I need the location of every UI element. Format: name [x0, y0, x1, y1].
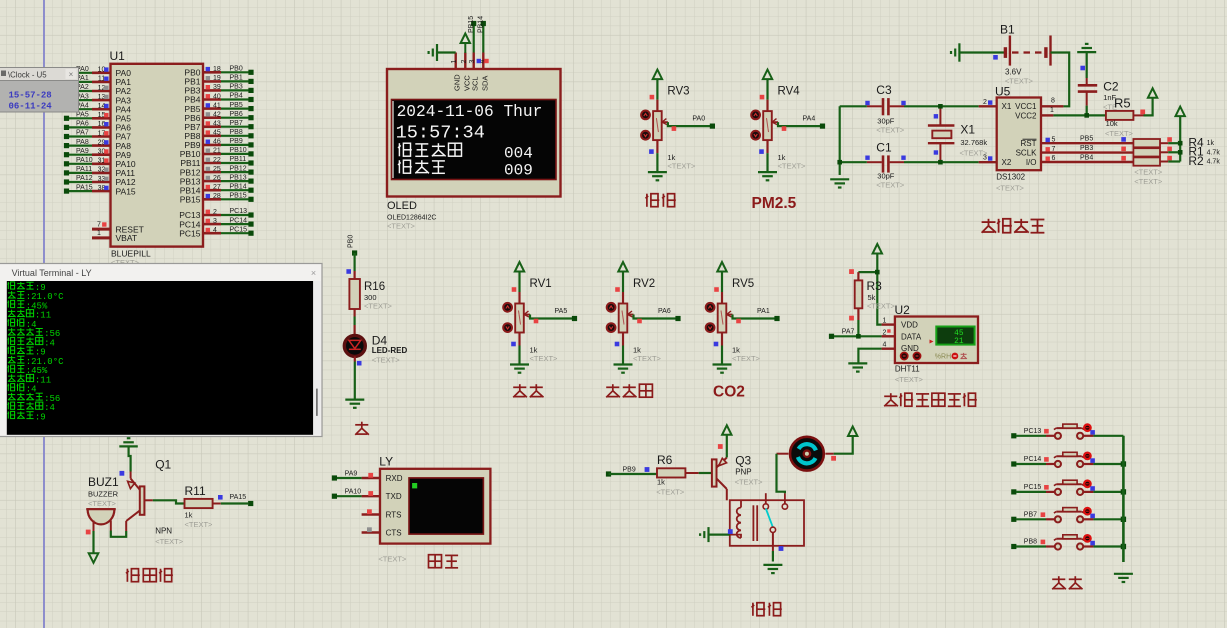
svg-text:<TEXT>: <TEXT>: [778, 162, 807, 171]
wire motor right to power arrow: [825, 427, 857, 461]
label lamp: [355, 422, 369, 435]
svg-text:<TEXT>: <TEXT>: [185, 520, 214, 529]
svg-text:PB4: PB4: [1080, 155, 1093, 162]
relay common to ground: [763, 532, 783, 573]
svg-text:PC15: PC15: [230, 226, 248, 233]
OLED GND wire + ground: [437, 51, 456, 53]
label light: [513, 384, 543, 397]
svg-text:RV3: RV3: [667, 86, 689, 98]
svg-text::9: :9: [35, 412, 46, 422]
svg-text:PA12: PA12: [76, 175, 93, 182]
svg-text:22: 22: [213, 157, 221, 164]
svg-text:R6: R6: [657, 453, 673, 467]
svg-text::4: :4: [26, 320, 37, 330]
svg-text:<TEXT>: <TEXT>: [876, 126, 905, 135]
wire PB9 to R6: [609, 467, 658, 474]
svg-text::4: :4: [26, 385, 37, 395]
svg-text:43: 43: [213, 121, 221, 128]
svg-text:PB6: PB6: [230, 111, 243, 118]
svg-text:BUZ1: BUZ1: [88, 475, 119, 489]
svg-text:PB15: PB15: [468, 16, 475, 33]
battery B1: [951, 23, 1051, 86]
svg-text:RTS: RTS: [386, 510, 402, 519]
svg-text:PB13: PB13: [230, 174, 247, 181]
svg-text:10k: 10k: [1106, 119, 1118, 128]
potentiometer RV1 (light sensor): [503, 262, 577, 373]
svg-text:7: 7: [1052, 146, 1056, 153]
svg-text:PB9: PB9: [623, 467, 636, 474]
svg-text:45: 45: [954, 330, 964, 338]
OLED pin stubs + rotated names: [451, 53, 489, 92]
transistor Q3 PNP: [699, 454, 763, 501]
resistor R5: [1105, 96, 1145, 139]
potentiometer RV4 (PM2.5 sensor): [751, 70, 825, 181]
svg-text:<TEXT>: <TEXT>: [656, 488, 685, 497]
resistor R3: [849, 269, 895, 320]
OLED SCL wire to PB15: [468, 16, 476, 53]
svg-text:PC15: PC15: [179, 228, 201, 238]
svg-text:<TEXT>: <TEXT>: [364, 302, 393, 311]
svg-text:BLUEPILL: BLUEPILL: [111, 248, 151, 258]
svg-text:<TEXT>: <TEXT>: [155, 537, 184, 546]
svg-text:PA9: PA9: [345, 470, 358, 477]
wire ground to Q1 emitter: [120, 446, 131, 475]
svg-text:I/O: I/O: [1026, 158, 1037, 167]
svg-text:PA5: PA5: [76, 112, 89, 119]
svg-text:PB1: PB1: [230, 75, 243, 82]
label clock module: [982, 219, 1045, 233]
svg-text:R16: R16: [364, 281, 385, 293]
wire PB0 to R16: [354, 253, 356, 271]
svg-text:DATA: DATA: [901, 333, 922, 342]
svg-text:<TEXT>: <TEXT>: [1134, 168, 1163, 177]
svg-text:<TEXT>: <TEXT>: [735, 478, 764, 487]
svg-text:PA9: PA9: [76, 148, 89, 155]
svg-text:×: ×: [69, 70, 74, 79]
power rail right of R4/R1/R2: [1168, 107, 1185, 162]
svg-text:<TEXT>: <TEXT>: [876, 181, 905, 190]
power arrow above R3/U2: [873, 244, 882, 254]
wire X2 row (pin3): [904, 155, 997, 165]
OLED VCC power arrow: [461, 34, 470, 44]
svg-text:2: 2: [983, 99, 987, 106]
svg-text:R5: R5: [1114, 96, 1131, 111]
svg-text:5: 5: [1052, 136, 1056, 143]
svg-text:TXD: TXD: [386, 492, 402, 501]
svg-text:VBAT: VBAT: [116, 233, 138, 243]
svg-text:1: 1: [1050, 107, 1054, 114]
svg-text:<TEXT>: <TEXT>: [895, 375, 924, 384]
svg-text:R11: R11: [185, 484, 206, 498]
push button PB8: [1011, 535, 1126, 550]
svg-text:PA8: PA8: [76, 139, 89, 146]
svg-text:OLED12864I2C: OLED12864I2C: [387, 215, 436, 222]
Virtual Terminal window: [0, 264, 322, 437]
svg-text:<TEXT>: <TEXT>: [633, 354, 662, 363]
svg-text:PC14: PC14: [230, 217, 248, 224]
capacitor C1: [865, 141, 905, 190]
svg-text:4.7k: 4.7k: [1207, 149, 1221, 156]
wire power to R3 and U2 VDD: [858, 254, 881, 325]
svg-text:3: 3: [983, 155, 987, 162]
svg-text:<TEXT>: <TEXT>: [530, 354, 559, 363]
svg-text:<TEXT>: <TEXT>: [88, 499, 117, 508]
svg-text:PB0: PB0: [347, 235, 354, 248]
svg-text:U1: U1: [110, 49, 126, 63]
svg-text:C3: C3: [876, 83, 892, 97]
svg-text:PB9: PB9: [230, 138, 243, 145]
potentiometer RV5 (CO2 sensor): [706, 262, 780, 373]
svg-text:<TEXT>: <TEXT>: [1105, 129, 1134, 138]
svg-text:25: 25: [213, 166, 221, 173]
svg-text:8: 8: [1051, 98, 1055, 105]
svg-text:<TEXT>: <TEXT>: [372, 356, 401, 365]
buzzer right pin to Q1 collector: [111, 521, 126, 537]
DHT11 module U2: [882, 303, 978, 384]
label fan: [752, 603, 782, 616]
svg-text:U5: U5: [995, 85, 1011, 99]
svg-text:Virtual Terminal - LY: Virtual Terminal - LY: [12, 268, 92, 278]
svg-text:PB7: PB7: [1024, 512, 1037, 519]
svg-text:PC15: PC15: [1024, 484, 1042, 491]
svg-text:RXD: RXD: [386, 474, 403, 483]
wire PA10 to TXD: [332, 489, 380, 499]
Q3 emitter power arrow: [718, 425, 732, 457]
label keys: [1052, 576, 1082, 589]
svg-text:PB11: PB11: [230, 156, 247, 163]
svg-text:06-11-24: 06-11-24: [9, 102, 53, 112]
svg-text:VCC2: VCC2: [1015, 111, 1037, 120]
svg-text:<TEXT>: <TEXT>: [378, 555, 407, 564]
power arrow for R5: [1144, 88, 1158, 115]
svg-text:1: 1: [451, 60, 458, 64]
svg-text:2024-11-06 Thur: 2024-11-06 Thur: [397, 103, 543, 121]
svg-text:Q1: Q1: [155, 458, 171, 472]
svg-text:VCC1: VCC1: [1015, 102, 1037, 111]
svg-text:PB5: PB5: [230, 102, 243, 109]
svg-text:<TEXT>: <TEXT>: [732, 354, 761, 363]
svg-text:DHT11: DHT11: [895, 365, 920, 374]
push button PC13: [1011, 424, 1123, 439]
svg-text:1k: 1k: [1207, 140, 1215, 147]
svg-text:%RH: %RH: [935, 354, 951, 361]
svg-text:RV2: RV2: [633, 278, 655, 290]
LED D4: [344, 334, 407, 365]
resistor R11: [153, 484, 221, 529]
svg-text:PA4: PA4: [803, 116, 816, 123]
svg-text:40: 40: [213, 93, 221, 100]
svg-text:1k: 1k: [657, 478, 665, 487]
U1 RESET/VBAT pins: [92, 228, 111, 231]
wire motor left to relay switch: [777, 454, 789, 494]
svg-text:15:57:34: 15:57:34: [396, 123, 485, 144]
svg-text:PB0: PB0: [230, 66, 243, 73]
label buzzer: [126, 569, 173, 582]
svg-text:26: 26: [213, 175, 221, 182]
svg-text:SDA: SDA: [480, 76, 489, 91]
svg-text:32.768k: 32.768k: [960, 138, 987, 147]
svg-text:21: 21: [213, 148, 221, 155]
resistor R4: [1133, 135, 1214, 149]
svg-text:30pF: 30pF: [877, 172, 895, 181]
label temp/humidity sensor: [884, 393, 977, 406]
svg-text:4: 4: [883, 342, 887, 349]
svg-text:PM2.5: PM2.5: [752, 195, 797, 212]
svg-text:VDD: VDD: [901, 321, 918, 330]
svg-text:X1: X1: [960, 123, 975, 137]
svg-text:<TEXT>: <TEXT>: [387, 222, 416, 231]
svg-text:21: 21: [954, 338, 964, 346]
svg-text:3: 3: [469, 60, 476, 64]
label H2S: [606, 384, 652, 397]
OLED SDA wire to PB14: [478, 16, 486, 53]
svg-text:42: 42: [213, 112, 221, 119]
svg-text:×: ×: [311, 268, 316, 278]
svg-text:CTS: CTS: [386, 528, 402, 537]
svg-text:PB15: PB15: [230, 193, 247, 200]
net PB0 terminal: [347, 235, 357, 256]
svg-text::4: :4: [44, 338, 55, 348]
svg-text:X2: X2: [1002, 158, 1012, 167]
U5 SCLK row to R1: [1041, 145, 1133, 153]
svg-text:R2: R2: [1188, 154, 1204, 168]
small gray tab left edge: [0, 310, 5, 323]
svg-text:LED-RED: LED-RED: [372, 346, 408, 355]
svg-text:<TEXT>: <TEXT>: [667, 162, 696, 171]
svg-text:1: 1: [97, 230, 101, 237]
svg-text:PC13: PC13: [1024, 428, 1042, 435]
svg-text:15-57-28: 15-57-28: [9, 91, 52, 101]
buttons common rail to ground: [1114, 436, 1133, 582]
svg-text:PA11: PA11: [76, 166, 92, 173]
svg-text:C2: C2: [1103, 80, 1119, 94]
svg-text:RV4: RV4: [778, 86, 801, 98]
svg-text:004: 004: [504, 145, 533, 163]
Clock-U5 popup window: [0, 68, 79, 113]
svg-text:X1: X1: [1002, 102, 1012, 111]
svg-text:C1: C1: [876, 141, 892, 155]
wire PA9 to RXD: [332, 470, 380, 480]
left rail C3/C1 to ground: [830, 106, 867, 187]
net PB9 terminal: [606, 467, 636, 477]
svg-text:LY: LY: [379, 455, 393, 469]
svg-text:PB14: PB14: [478, 16, 485, 33]
svg-text:PA0: PA0: [692, 116, 705, 123]
wire X1 row (pin2): [904, 99, 997, 109]
svg-text:<TEXT>: <TEXT>: [867, 302, 896, 311]
label bluetooth: [429, 555, 459, 568]
microcontroller U1 BLUEPILL: [64, 49, 254, 267]
svg-text:PA7: PA7: [842, 329, 855, 336]
svg-text:CO2: CO2: [713, 384, 745, 401]
svg-text:PA6: PA6: [76, 121, 89, 128]
svg-text:U2: U2: [895, 303, 911, 317]
capacitor C2: [1078, 78, 1119, 115]
svg-text::4: :4: [44, 403, 55, 413]
svg-text:2: 2: [213, 209, 217, 216]
svg-text:RV1: RV1: [530, 278, 552, 290]
svg-text:PC14: PC14: [1024, 456, 1042, 463]
crystal X1: [928, 106, 988, 162]
svg-text:39: 39: [213, 84, 221, 91]
label ammonia: [646, 194, 676, 207]
svg-text:<TEXT>: <TEXT>: [1134, 177, 1163, 186]
wire battery to U5 VCC1 pin8: [1041, 53, 1069, 107]
capacitor C3: [865, 83, 905, 135]
wire U5 VCC2 row: [1041, 107, 1106, 118]
svg-text:18: 18: [213, 66, 221, 73]
svg-text:27: 27: [213, 184, 221, 191]
svg-text:\Clock - U5: \Clock - U5: [8, 70, 47, 79]
resistor R16: [349, 271, 392, 317]
buzzer BUZ1: [86, 475, 119, 524]
ground under D4: [345, 399, 364, 401]
svg-text:OLED: OLED: [387, 200, 417, 212]
svg-text:4: 4: [213, 227, 217, 234]
svg-text:PB12: PB12: [230, 165, 247, 172]
svg-text:3: 3: [213, 218, 217, 225]
svg-text:PB15: PB15: [180, 195, 201, 205]
svg-text:3.6V: 3.6V: [1005, 68, 1022, 77]
svg-text:PA6: PA6: [658, 308, 671, 315]
potentiometer RV3 (ammonia sensor): [641, 70, 715, 181]
potentiometer RV2 (H2S sensor): [607, 262, 681, 373]
flipped ground above Q1: [119, 445, 138, 447]
svg-text:PA10: PA10: [76, 157, 93, 164]
svg-text:PB5: PB5: [1080, 136, 1093, 143]
svg-text:R3: R3: [867, 279, 883, 293]
svg-text:PA7: PA7: [76, 130, 89, 137]
svg-text:PA1: PA1: [757, 308, 770, 315]
svg-text:46: 46: [213, 139, 221, 146]
relay coil ground (left): [700, 527, 733, 542]
OLED text line CO2: [398, 143, 400, 156]
fan motor: [790, 437, 824, 471]
wire R11 to PA15: [218, 494, 253, 506]
svg-text:28: 28: [213, 193, 221, 200]
CTS stub: [362, 527, 380, 532]
svg-text:NPN: NPN: [155, 527, 172, 536]
svg-text:41: 41: [213, 102, 221, 109]
terminal text lines: [8, 282, 65, 422]
U5 RST row to R4: [1041, 136, 1133, 144]
resistor R6: [656, 453, 698, 497]
svg-text::11: :11: [35, 375, 51, 385]
svg-text:PA10: PA10: [345, 489, 362, 496]
svg-text:PA15: PA15: [116, 186, 136, 196]
relay switch contacts: [763, 493, 788, 532]
resistor R2: [1133, 154, 1220, 186]
svg-text:1: 1: [883, 318, 887, 325]
svg-text:PNP: PNP: [735, 468, 751, 477]
svg-text::11: :11: [35, 311, 51, 321]
push button PC15: [1011, 480, 1126, 495]
svg-text:PC13: PC13: [230, 208, 248, 215]
svg-text:PB3: PB3: [230, 84, 243, 91]
bluetooth module LY: [378, 455, 490, 564]
svg-text:PB10: PB10: [230, 147, 247, 154]
U5 DS1302: [995, 85, 1041, 193]
OLED labels: [387, 200, 436, 231]
OLED text line particles: [398, 160, 400, 173]
svg-text:Q3: Q3: [735, 454, 751, 468]
buzzer left pin to down-arrow terminal: [86, 521, 99, 563]
svg-text:45: 45: [213, 130, 221, 137]
svg-text:SCLK: SCLK: [1016, 149, 1038, 158]
svg-text:30pF: 30pF: [877, 117, 895, 126]
svg-text:PB3: PB3: [1080, 145, 1093, 152]
svg-text:B1: B1: [1000, 23, 1015, 37]
svg-text:RST: RST: [1021, 139, 1037, 148]
svg-text:SCL: SCL: [471, 76, 480, 91]
svg-text:6: 6: [1052, 155, 1056, 162]
svg-text:PB4: PB4: [230, 93, 243, 100]
svg-text:PB8: PB8: [230, 129, 243, 136]
svg-text:1k: 1k: [185, 511, 193, 520]
svg-text:PA5: PA5: [555, 308, 568, 315]
wire R16 to D4: [354, 317, 356, 326]
push button PC14: [1011, 452, 1126, 467]
svg-text:009: 009: [504, 162, 533, 180]
svg-text:PB14: PB14: [230, 183, 247, 190]
U5 I/O row to R2: [1041, 155, 1133, 163]
svg-text:BUZZER: BUZZER: [88, 490, 119, 499]
push button PB7: [1011, 508, 1126, 523]
svg-text:4.7k: 4.7k: [1207, 159, 1221, 166]
svg-text:RV5: RV5: [732, 278, 754, 290]
svg-text:19: 19: [213, 75, 221, 82]
resistor R1: [1133, 145, 1220, 159]
RTS stub: [362, 509, 380, 514]
U2 GND wire + ground: [848, 349, 881, 372]
OLED display module: [387, 69, 561, 197]
svg-text:PA15: PA15: [230, 494, 247, 501]
ground above C2 (flipped): [1077, 44, 1096, 78]
sheet border line: [43, 0, 45, 628]
transistor Q1 NPN: [126, 458, 184, 547]
svg-text:2: 2: [883, 329, 887, 336]
svg-text:GND: GND: [453, 74, 462, 91]
svg-text:PB7: PB7: [230, 120, 243, 127]
svg-text:PB8: PB8: [1024, 539, 1037, 546]
svg-text:<TEXT>: <TEXT>: [996, 184, 1025, 193]
svg-text:PA15: PA15: [76, 184, 93, 191]
svg-text:7: 7: [97, 221, 101, 228]
wire D4 to ground: [355, 356, 362, 399]
wire PA7 to U2 DATA: [829, 320, 882, 339]
svg-text:DS1302: DS1302: [996, 173, 1025, 182]
relay (fan driver): [730, 500, 804, 546]
svg-text:2: 2: [461, 60, 468, 64]
